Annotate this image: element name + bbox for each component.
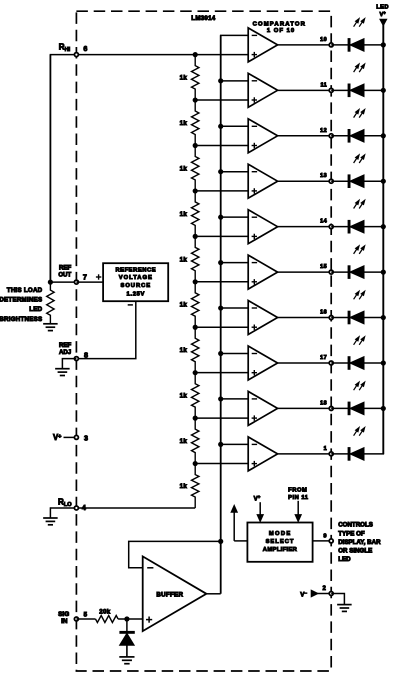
LED D1 — [348, 39, 364, 52]
wire pin2 to ground — [331, 594, 344, 605]
svg-text:PIN 11: PIN 11 — [288, 495, 309, 501]
svg-text:DETERMINES: DETERMINES — [0, 297, 42, 304]
wire ladder node 9 to comparator C9 plus input — [195, 417, 248, 419]
wire buffer output feed (vertical to comparator minus inputs) — [220, 35, 222, 593]
svg-text:SELECT: SELECT — [266, 539, 295, 545]
LED D10 light emission arrows — [354, 427, 365, 435]
wire ladder node 10 to comparator C10 plus input — [195, 463, 248, 465]
wire pin 12 to LED D3 — [331, 135, 349, 137]
junction dot minus tap C9 — [218, 396, 223, 401]
svg-text:VOLTAGE: VOLTAGE — [119, 275, 153, 281]
junction dot LED rail row 1 — [381, 42, 386, 47]
wire comparator C5 minus input — [221, 216, 249, 218]
wire comparator C9 output to pin 18 — [278, 407, 332, 409]
V- arrowhead — [311, 590, 318, 597]
LED D8 light emission arrows — [354, 337, 365, 345]
wire comparator C8 output to pin 17 — [278, 362, 332, 364]
svg-text:LED: LED — [338, 556, 351, 563]
svg-text:ADJ: ADJ — [59, 349, 71, 356]
svg-text:1 OF 10: 1 OF 10 — [267, 28, 295, 34]
svg-text:5: 5 — [84, 611, 88, 618]
junction dot LED rail row 2 — [381, 88, 386, 93]
wire ladder node 6 to comparator C6 plus input — [195, 281, 248, 283]
junction dot ladder node 2 — [193, 97, 198, 102]
LED D2 — [348, 84, 364, 97]
pin 6 terminal — [74, 53, 78, 57]
svg-text:20k: 20k — [99, 608, 110, 615]
LED D10 — [348, 448, 364, 461]
junction dot LED rail row 5 — [381, 224, 386, 229]
wire pin7 to reference source — [76, 281, 103, 283]
svg-text:16: 16 — [320, 310, 327, 316]
pin 18 terminal — [329, 406, 333, 410]
pin 1 terminal — [329, 452, 333, 456]
svg-text:1k: 1k — [180, 393, 188, 400]
resistor R10 1k (ladder) — [192, 464, 199, 508]
ground (REF ADJ) — [55, 369, 70, 376]
wire comparator C9 minus input — [221, 398, 249, 400]
input clamp diode D11 — [120, 631, 135, 657]
pin 4 terminal — [74, 506, 78, 510]
svg-text:CONTROLS: CONTROLS — [338, 522, 373, 529]
junction dot buffer feedback — [218, 539, 223, 544]
label REF OUT — [58, 265, 71, 279]
FROM PIN 11 arrow into mode select — [295, 501, 301, 522]
wire comparator C1 output to pin 10 — [278, 44, 332, 46]
label LED V+ supply — [376, 5, 389, 18]
reference voltage source box — [103, 263, 168, 301]
junction dot minus tap C4 — [218, 169, 223, 174]
junction dot minus tap C10 — [218, 442, 223, 447]
LED D7 — [348, 311, 364, 324]
svg-text:1k: 1k — [180, 438, 188, 445]
wire comparator C5 output to pin 14 — [278, 226, 332, 228]
IC boundary dashed box (LM3914) — [76, 11, 331, 671]
wire LED D3 to LED V+ rail — [364, 135, 383, 137]
pin 4 terminal stub wires — [50, 507, 76, 509]
svg-text:13: 13 — [320, 173, 327, 179]
svg-text:1k: 1k — [180, 256, 188, 263]
wire left rail vertical (pin6 to load node) — [49, 55, 51, 283]
junction dot minus tap C6 — [218, 260, 223, 265]
wire pin6 into box (to ladder top) — [76, 54, 248, 56]
resistor R8 1k (ladder) — [192, 373, 199, 418]
svg-text:18: 18 — [320, 400, 327, 406]
junction dot LED rail row 7 — [381, 315, 386, 320]
pin 8 terminal — [74, 357, 78, 361]
resistor 20k (input) — [96, 616, 119, 623]
LED D6 — [348, 266, 364, 279]
svg-text:8: 8 — [84, 350, 88, 359]
junction dot ladder node 10 — [193, 461, 198, 466]
svg-text:1k: 1k — [180, 75, 188, 82]
pin 15 terminal — [329, 270, 333, 274]
wire pin 10 to LED D1 — [331, 44, 349, 46]
wire V+ stub to pin3 — [64, 436, 77, 438]
wire comparator C3 output to pin 12 — [278, 135, 332, 137]
comparator C10 — [248, 437, 277, 471]
comparator C7 — [248, 301, 277, 335]
wire ladder node 2 to comparator C2 plus input — [195, 99, 248, 101]
ground (load resistor) — [43, 324, 58, 331]
wire pin 13 to LED D4 — [331, 180, 349, 182]
LED D9 light emission arrows — [354, 382, 365, 390]
wire pin 18 to LED D9 — [331, 407, 349, 409]
pin 7 terminal — [74, 280, 78, 284]
resistor R6 1k (ladder) — [192, 282, 199, 327]
label CONTROLS TYPE OF DISPLAY BAR OR SINGLE LED — [338, 522, 381, 563]
wire comparator C4 minus input — [221, 171, 249, 173]
label FROM PIN 11 — [288, 488, 309, 501]
svg-text:FROM: FROM — [288, 488, 307, 494]
svg-text:1k: 1k — [180, 120, 188, 127]
load resistor (LED brightness) — [47, 282, 54, 323]
wire LED D10 to LED V+ rail — [364, 453, 384, 455]
wire comparator C2 minus input — [221, 80, 249, 82]
wire REF OUT node to pin7 — [50, 281, 76, 283]
svg-text:OUT: OUT — [58, 272, 71, 279]
LED D5 — [348, 220, 364, 233]
wire comparator C4 output to pin 13 — [278, 180, 332, 182]
junction dot LED rail row 6 — [381, 270, 386, 275]
junction dot LED rail row 9 — [381, 406, 386, 411]
wire pin4 to ladder bottom — [76, 507, 195, 509]
wire V- arrow to pin 2 — [318, 593, 332, 595]
svg-text:1.25V: 1.25V — [126, 291, 145, 297]
V+ arrow into mode select — [257, 502, 263, 521]
wire comparator C10 output to pin 1 — [278, 453, 332, 455]
wire ladder node 3 to comparator C3 plus input — [195, 144, 248, 146]
comparator C6 — [248, 255, 277, 289]
comparator C3 — [248, 119, 277, 153]
svg-text:TYPE OF: TYPE OF — [338, 530, 365, 537]
svg-text:14: 14 — [320, 219, 327, 225]
ground (R_LO) — [43, 518, 58, 525]
junction dot minus tap C2 — [218, 78, 223, 83]
wire comparator C7 output to pin 16 — [278, 317, 332, 319]
junction dot ladder node 6 — [193, 279, 198, 284]
svg-text:12: 12 — [320, 128, 327, 134]
LED D1 light emission arrows — [354, 18, 365, 26]
svg-text:SOURCE: SOURCE — [121, 283, 152, 289]
svg-text:OR SINGLE: OR SINGLE — [338, 548, 372, 555]
wire LED V+ rail — [382, 25, 384, 454]
wire comparator C6 minus input — [221, 262, 249, 264]
LED V+ arrowhead (supply entering) — [380, 19, 387, 25]
junction dot minus tap C3 — [218, 124, 223, 129]
pin 2 terminal — [329, 592, 333, 596]
svg-text:BRIGHTNESS: BRIGHTNESS — [0, 316, 42, 323]
svg-text:3: 3 — [84, 434, 88, 443]
wire LED D5 to LED V+ rail — [364, 226, 383, 228]
mode select amplifier box — [247, 523, 312, 562]
wire ladder node 5 to comparator C5 plus input — [195, 235, 248, 237]
wire LED D9 to LED V+ rail — [364, 407, 383, 409]
svg-text:DISPLAY, BAR: DISPLAY, BAR — [338, 539, 381, 546]
LED D5 light emission arrows — [354, 200, 365, 208]
label SIG IN — [58, 611, 69, 625]
comparator C2 — [248, 73, 277, 107]
junction dot ladder node 8 — [193, 370, 198, 375]
wire up-arrow to mode select box — [234, 540, 247, 542]
wire LED D6 to LED V+ rail — [364, 271, 383, 273]
comparator C1 — [248, 28, 277, 62]
svg-text:1k: 1k — [180, 347, 188, 354]
wire LED D4 to LED V+ rail — [364, 180, 383, 182]
comparator C9 — [248, 391, 277, 425]
wire R_HI pin6 to left rail — [50, 54, 77, 56]
label THIS LOAD DETERMINES LED BRIGHTNESS — [0, 287, 43, 323]
LED D3 — [348, 130, 364, 143]
svg-text:AMPLIFIER: AMPLIFIER — [263, 547, 298, 553]
svg-text:COMPARATOR: COMPARATOR — [253, 22, 306, 28]
wire comparator C1 minus input — [220, 34, 248, 36]
svg-text:11: 11 — [320, 82, 327, 88]
LED D8 — [348, 357, 364, 370]
svg-text:1k: 1k — [180, 302, 188, 309]
wire ladder node 8 to comparator C8 plus input — [195, 372, 248, 374]
wire pin 14 to LED D5 — [331, 226, 349, 228]
mode select output up-arrow — [231, 505, 237, 541]
wire comparator C2 output to pin 11 — [278, 89, 332, 91]
junction dot load node — [48, 280, 53, 285]
svg-text:15: 15 — [320, 264, 327, 270]
wire LED D1 to LED V+ rail — [364, 44, 383, 46]
svg-text:MODE: MODE — [269, 531, 292, 537]
label REF ADJ — [59, 342, 71, 356]
LED D4 — [348, 175, 364, 188]
pin 11 terminal — [329, 88, 333, 92]
label COMPARATOR 1 OF 10 — [253, 22, 306, 34]
comparator C4 — [248, 164, 277, 198]
wire buffer feedback loop — [129, 541, 221, 567]
wire comparator C7 minus input — [221, 307, 249, 309]
junction dot ladder node 5 — [193, 234, 198, 239]
pin 12 terminal — [329, 134, 333, 138]
LED D2 light emission arrows — [354, 64, 365, 72]
wire ladder node 4 to comparator C4 plus input — [195, 190, 248, 192]
wire pin5 to 20k resistor — [76, 618, 95, 620]
junction dot ladder node 9 — [193, 416, 198, 421]
wire comparator C10 minus input — [221, 443, 249, 445]
pin 10 terminal — [329, 43, 333, 47]
LED D7 light emission arrows — [354, 291, 365, 299]
svg-text:LM3914: LM3914 — [191, 15, 216, 22]
wire pin4 ground drop — [49, 507, 51, 518]
svg-text:BUFFER: BUFFER — [156, 591, 183, 598]
svg-text:REFERENCE: REFERENCE — [115, 268, 156, 274]
pin 9 terminal — [329, 539, 333, 543]
svg-text:10: 10 — [320, 37, 327, 43]
junction dot ladder node 3 — [193, 143, 198, 148]
svg-text:LED: LED — [29, 306, 42, 313]
wire buffer output to feed line — [206, 593, 220, 595]
pin 3 terminal — [74, 435, 78, 439]
wire comparator C6 output to pin 15 — [278, 271, 332, 273]
wire diode cathode — [126, 619, 128, 632]
wire reference source negative to pin8 — [76, 301, 135, 358]
LED D6 light emission arrows — [354, 246, 365, 254]
junction dot diode node — [124, 616, 129, 621]
wire pin 17 to LED D8 — [331, 362, 349, 364]
junction dot minus tap C8 — [218, 351, 223, 356]
wire comparator C3 minus input — [221, 125, 249, 127]
junction dot ladder node 7 — [193, 325, 198, 330]
resistor R2 1k (ladder) — [192, 100, 199, 146]
wire pin8 to ground — [62, 359, 76, 369]
svg-text:1: 1 — [324, 446, 327, 452]
resistor R5 1k (ladder) — [192, 236, 199, 281]
LED D3 light emission arrows — [354, 109, 365, 117]
wire 20k to buffer plus input — [118, 618, 143, 620]
label + (reference source positive) — [96, 274, 101, 279]
buffer op-amp U2 — [143, 556, 207, 631]
ground (clamp diode) — [119, 657, 134, 664]
wire ladder node 7 to comparator C7 plus input — [195, 326, 248, 328]
junction dot minus tap C7 — [218, 305, 223, 310]
LED D4 light emission arrows — [354, 155, 365, 163]
wire LED D8 to LED V+ rail — [364, 362, 383, 364]
svg-text:17: 17 — [320, 355, 327, 361]
label - (reference source negative) — [128, 304, 133, 306]
comparator C8 — [248, 346, 277, 380]
pin 16 terminal — [329, 316, 333, 320]
svg-text:6: 6 — [83, 44, 87, 53]
junction dot minus tap C5 — [218, 215, 223, 220]
pin 17 terminal — [329, 361, 333, 365]
wire pin 11 to LED D2 — [331, 89, 349, 91]
pin 5 terminal — [74, 617, 78, 621]
svg-text:1k: 1k — [180, 211, 188, 218]
resistor R4 1k (ladder) — [192, 191, 199, 237]
wire pin 15 to LED D6 — [331, 271, 349, 273]
resistor R7 1k (ladder) — [192, 327, 199, 373]
junction dot ladder node 1 — [193, 52, 198, 57]
wire pin 1 to LED D10 — [331, 453, 349, 455]
LED D9 — [348, 402, 364, 415]
comparator C5 — [248, 210, 277, 244]
junction dot LED rail row 8 — [381, 360, 386, 365]
junction dot LED rail row 4 — [381, 179, 386, 184]
pin 13 terminal — [329, 179, 333, 183]
svg-text:THIS LOAD: THIS LOAD — [7, 287, 43, 294]
svg-text:1k: 1k — [180, 165, 188, 172]
svg-text:IN: IN — [61, 618, 68, 625]
pin 14 terminal — [329, 225, 333, 229]
resistor R9 1k (ladder) — [192, 418, 199, 464]
wire comparator C8 minus input — [221, 352, 249, 354]
ground (V-) — [337, 605, 352, 612]
wire LED D2 to LED V+ rail — [364, 89, 383, 91]
svg-text:REF: REF — [59, 342, 71, 349]
wire mode select to pin 9 — [313, 540, 332, 542]
resistor R3 1k (ladder) — [192, 146, 199, 191]
svg-text:7: 7 — [83, 273, 87, 282]
svg-text:4: 4 — [82, 503, 86, 512]
wire pin 16 to LED D7 — [331, 317, 349, 319]
junction dot LED rail row 3 — [381, 133, 386, 138]
wire LED D7 to LED V+ rail — [364, 317, 383, 319]
junction dot ladder node 4 — [193, 188, 198, 193]
svg-text:1k: 1k — [180, 483, 188, 490]
resistor R1 1k (ladder) — [192, 55, 199, 100]
